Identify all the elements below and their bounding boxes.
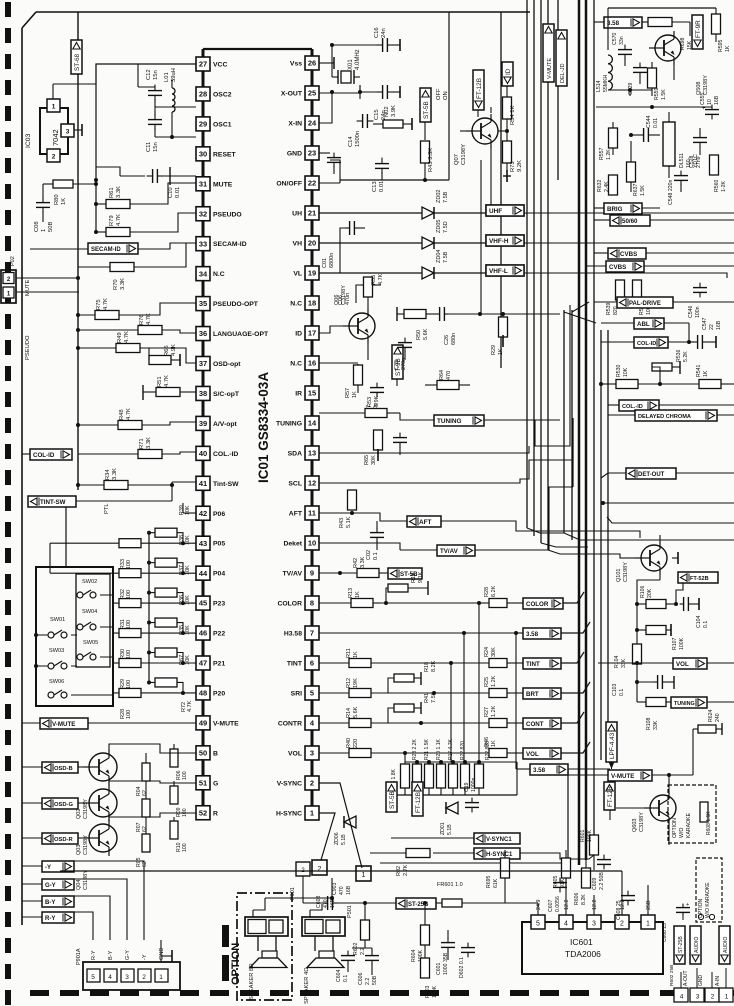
capacitor C609 2.2 50B [592, 855, 611, 890]
resistor R64 470 [425, 370, 470, 390]
inductor L01 39uH [164, 68, 177, 112]
resistor R18 8.2K [388, 660, 437, 693]
pin 40 COL.-ID [196, 446, 238, 460]
pin 44 P04 [196, 566, 225, 580]
tag DELAYED CHROMA [608, 410, 734, 421]
tag FT-9R vertical [692, 15, 703, 49]
resistor R604 100K [411, 901, 430, 962]
svg-text:SW03: SW03 [49, 648, 64, 654]
svg-text:28: 28 [199, 90, 207, 99]
svg-text:Deket: Deket [283, 541, 302, 548]
capacitor C544 0.01 [631, 115, 660, 142]
resistor R43 3.3K [421, 141, 435, 182]
pin 19 VL [293, 266, 319, 280]
svg-text:C548 220n: C548 220n [668, 180, 674, 205]
svg-text:R559: R559 [654, 87, 660, 100]
transistor Q02 C3198Y [76, 749, 117, 819]
svg-text:R75: R75 [96, 299, 102, 310]
svg-text:Q03: Q03 [76, 845, 82, 855]
pin 49 V-MUTE [196, 716, 239, 730]
svg-text:V-SYNC: V-SYNC [277, 781, 302, 788]
svg-text:SW05: SW05 [83, 640, 98, 646]
svg-text:12: 12 [308, 479, 316, 488]
svg-text:R71: R71 [139, 438, 145, 449]
svg-text:C608 23: C608 23 [662, 923, 668, 942]
svg-text:22: 22 [709, 324, 715, 330]
svg-text:52: 52 [199, 808, 207, 817]
resistor R70 3.3K [78, 243, 186, 290]
svg-text:TDA2006: TDA2006 [565, 949, 601, 959]
pin 50 B [196, 746, 218, 760]
diode ZD02 7.5B [319, 190, 486, 219]
svg-text:DELAYED CHROMA: DELAYED CHROMA [638, 414, 691, 420]
svg-text:0.1: 0.1 [619, 689, 625, 696]
svg-text:MUTE: MUTE [25, 279, 31, 296]
svg-text:H-SYNC1: H-SYNC1 [486, 852, 513, 858]
svg-text:680n: 680n [451, 333, 457, 345]
svg-text:220: 220 [353, 739, 359, 748]
transistor Q101 C3198Y [616, 535, 678, 604]
resistor R602 2.2 [353, 901, 370, 955]
resistor R698 top [648, 18, 693, 51]
svg-text:10: 10 [707, 99, 713, 105]
svg-text:Q07: Q07 [454, 154, 460, 165]
capacitor C15 24n [358, 85, 400, 120]
svg-text:37: 37 [199, 359, 207, 368]
option bracket marks [222, 925, 229, 981]
svg-text:R79: R79 [109, 215, 115, 226]
svg-text:1: 1 [725, 994, 729, 1001]
tag FT-12B bottom vertical [604, 782, 628, 820]
svg-text:5: 5 [310, 689, 314, 698]
svg-text:R41: R41 [424, 693, 430, 703]
svg-text:100: 100 [126, 680, 132, 689]
svg-text:1: 1 [362, 872, 366, 879]
speaker option dashed box [237, 893, 292, 1000]
svg-text:ABL: ABL [637, 321, 650, 328]
wire Deket pin10 [319, 542, 350, 544]
tag ST-25B vertical bottom right [674, 926, 685, 964]
svg-text:SCL: SCL [288, 481, 302, 488]
option karaoke box 2 [696, 858, 722, 922]
wire right rail 3 [564, 533, 734, 547]
svg-text:R-Y: R-Y [91, 950, 97, 960]
resistor R624 240 [693, 709, 722, 775]
svg-text:TV/AV: TV/AV [282, 571, 302, 578]
svg-text:3.58: 3.58 [533, 767, 546, 774]
svg-text:C3198Y: C3198Y [83, 799, 89, 819]
svg-text:35: 35 [199, 299, 207, 308]
svg-text:C35: C35 [394, 360, 400, 370]
svg-text:TUNING: TUNING [276, 421, 302, 428]
svg-text:ZD06: ZD06 [334, 832, 340, 845]
wire pin22 onoff [319, 180, 340, 183]
svg-text:COLOR: COLOR [526, 601, 549, 608]
svg-text:0.0056: 0.0056 [555, 896, 561, 912]
transistor Q07 C3198Y [454, 12, 498, 213]
svg-text:COL-ID: COL-ID [33, 452, 55, 459]
delay line DL511 160-YD1C [663, 112, 699, 178]
svg-text:TUNING: TUNING [674, 701, 695, 707]
tag VHF-L [486, 265, 560, 276]
svg-text:8.2K: 8.2K [431, 660, 437, 672]
svg-text:R25: R25 [484, 677, 490, 687]
pin 16 N.C [290, 356, 319, 370]
diode ZD01 5.1B [440, 795, 458, 835]
svg-text:R21 1.5K: R21 1.5K [424, 738, 430, 760]
svg-text:3: 3 [696, 994, 700, 1001]
svg-text:16B: 16B [346, 885, 352, 895]
resistor R32 100 [50, 567, 196, 599]
pin 23 GND [287, 146, 319, 160]
wires osc [155, 99, 196, 139]
svg-text:0.01: 0.01 [379, 181, 385, 192]
label OPTION vertical [230, 943, 242, 985]
svg-text:49: 49 [199, 719, 207, 728]
svg-text:ZD05: ZD05 [436, 220, 442, 233]
svg-text:OSD-B: OSD-B [54, 766, 73, 772]
svg-text:4.7K: 4.7K [116, 214, 122, 226]
svg-text:SW06: SW06 [49, 679, 64, 685]
svg-text:A/V-opt: A/V-opt [213, 421, 238, 428]
tag BRIG [594, 192, 660, 214]
capacitor C546 100n [688, 283, 707, 318]
transistor Q508 C3198Y [649, 22, 709, 95]
svg-text:N02: N02 [384, 106, 390, 117]
svg-text:Q02: Q02 [76, 809, 82, 819]
resistor FR601 [436, 899, 520, 907]
svg-text:P601: P601 [290, 887, 296, 900]
connector square 1 [356, 866, 371, 881]
wire right rail 2 [607, 517, 734, 523]
wire vsync cross [319, 783, 362, 868]
svg-text:N.C: N.C [290, 361, 302, 368]
wires Y tags to connector [74, 861, 300, 940]
svg-text:48: 48 [199, 689, 207, 698]
svg-text:1K: 1K [725, 45, 731, 52]
svg-text:3.58: 3.58 [526, 631, 539, 638]
resistor R35 10K [147, 625, 191, 665]
svg-text:ZD04: ZD04 [436, 250, 442, 263]
resistor R51 4.7K [143, 375, 196, 400]
svg-text:20: 20 [308, 239, 316, 248]
svg-text:2: 2 [52, 154, 56, 161]
svg-text:1K: 1K [61, 198, 67, 205]
svg-text:ZD02: ZD02 [436, 190, 442, 203]
svg-text:SRI: SRI [291, 691, 302, 698]
svg-text:P22: P22 [213, 631, 225, 638]
resistor R107 100K [635, 604, 685, 650]
pin 20 VH [293, 236, 319, 250]
pin 12 SCL [288, 476, 319, 490]
tag COL-ID right b [608, 400, 734, 411]
diode ZD06 5.1B [334, 816, 356, 845]
IC01 body left pin rail [202, 49, 205, 813]
svg-text:38: 38 [199, 389, 207, 398]
svg-text:C606: C606 [358, 972, 364, 985]
svg-text:SECAM-ID: SECAM-ID [91, 247, 121, 253]
svg-text:9.2K: 9.2K [517, 160, 523, 172]
svg-text:100K: 100K [679, 637, 685, 650]
svg-text:GND: GND [159, 948, 165, 960]
svg-text:1500n: 1500n [355, 131, 361, 147]
svg-text:0.1: 0.1 [373, 552, 379, 560]
wire vhfh to bus [524, 242, 734, 244]
svg-text:R541: R541 [696, 364, 702, 377]
svg-text:7.5B: 7.5B [443, 251, 449, 263]
svg-text:3: 3 [592, 921, 596, 928]
wire bottom rail 2 [60, 870, 622, 872]
svg-text:UHF: UHF [489, 208, 502, 215]
resistor R106 20K [635, 585, 678, 608]
svg-text:DL511: DL511 [679, 153, 685, 168]
svg-text:R602: R602 [353, 942, 359, 955]
svg-text:3.3K: 3.3K [360, 556, 366, 568]
svg-text:DET-OUT: DET-OUT [638, 472, 665, 478]
IC01 GS8334-03A label [256, 372, 271, 483]
resistor N02 3.9K [332, 105, 412, 130]
svg-text:DEL-JD: DEL-JD [560, 63, 566, 83]
svg-text:R34: R34 [105, 469, 111, 480]
svg-text:Q06: Q06 [334, 295, 340, 305]
svg-text:44: 44 [199, 569, 208, 578]
capacitor C547 22 16B [689, 317, 722, 349]
svg-text:X01: X01 [348, 59, 354, 70]
svg-text:0.01: 0.01 [175, 187, 181, 198]
IC01 body right pin rail [311, 49, 314, 813]
tag AFT [319, 511, 640, 538]
svg-text:B: B [213, 750, 218, 757]
svg-text:R608 1.5K: R608 1.5K [706, 811, 712, 835]
svg-text:ST-5B: ST-5B [389, 791, 396, 809]
svg-text:10K: 10K [185, 655, 191, 665]
option karaoke box 1 [668, 785, 716, 843]
wire SDA pin13 [319, 446, 529, 453]
svg-text:23: 23 [308, 149, 316, 158]
wire SCL pin12 [319, 418, 573, 483]
svg-text:R43: R43 [339, 518, 345, 528]
svg-text:B-Y: B-Y [108, 950, 114, 960]
svg-text:16B: 16B [714, 95, 720, 105]
svg-text:1.2K: 1.2K [606, 149, 612, 160]
svg-text:SDA: SDA [288, 451, 302, 458]
resistor R79 4.7K [94, 210, 196, 237]
svg-text:OSC1: OSC1 [213, 121, 232, 128]
resistor R61 3.3K [94, 183, 196, 209]
svg-text:1: 1 [41, 229, 47, 232]
svg-text:10: 10 [308, 539, 316, 548]
svg-text:4: 4 [680, 994, 684, 1001]
svg-text:C12: C12 [146, 69, 152, 80]
resistor R72 4.7K [181, 700, 193, 712]
tag TINT-SW [22, 485, 172, 507]
svg-text:ZD01: ZD01 [440, 822, 446, 835]
svg-text:V-MUTE: V-MUTE [213, 720, 239, 727]
capacitor C570 33n [612, 32, 632, 66]
svg-text:R606: R606 [574, 892, 580, 905]
speaker 4 ohm [302, 904, 345, 1004]
wire ladder top horizontals [405, 760, 517, 764]
frame top line [36, 11, 530, 13]
svg-text:1K: 1K [498, 348, 504, 355]
svg-text:24: 24 [308, 119, 317, 128]
svg-text:15: 15 [308, 389, 316, 398]
svg-text:R53: R53 [367, 397, 373, 407]
tag V-SYNC1 [391, 833, 560, 844]
svg-text:R11: R11 [346, 648, 352, 658]
svg-text:A-IN: A-IN [715, 976, 721, 986]
svg-text:5: 5 [536, 921, 540, 928]
svg-text:SW01: SW01 [50, 617, 65, 623]
svg-text:R64: R64 [439, 370, 445, 380]
svg-text:32: 32 [199, 209, 207, 218]
IC601 TDA2006 box [522, 900, 663, 975]
pin 11 AFT [289, 506, 319, 520]
svg-text:H3.58: H3.58 [284, 631, 302, 638]
svg-text:R73: R73 [510, 161, 516, 172]
tag -Y [22, 861, 74, 872]
svg-text:5.1B: 5.1B [447, 824, 453, 835]
svg-text:2: 2 [310, 779, 314, 788]
svg-text:10K: 10K [185, 535, 191, 545]
svg-text:SW02: SW02 [82, 579, 97, 585]
svg-text:OSD-R: OSD-R [54, 837, 73, 843]
svg-text:W/O KARAOKE: W/O KARAOKE [705, 882, 711, 918]
svg-text:V-MUTE: V-MUTE [547, 58, 553, 79]
resistor R560 1-2K [710, 155, 728, 192]
pin 51 G [196, 776, 218, 790]
svg-text:R20 1.1K: R20 1.1K [436, 738, 442, 760]
svg-text:46: 46 [199, 629, 207, 638]
svg-text:VOL: VOL [676, 661, 689, 668]
resistor R595 1K [712, 8, 732, 52]
tag UHF [486, 205, 524, 216]
svg-text:1K: 1K [353, 651, 359, 658]
svg-text:R23 2.2K: R23 2.2K [412, 738, 418, 760]
tag ST-25B [368, 898, 436, 909]
resistor R42 3.3K [319, 556, 388, 577]
svg-text:15n: 15n [153, 142, 159, 152]
svg-text:G-Y: G-Y [45, 883, 56, 889]
resistor R605 91K [553, 850, 571, 890]
svg-text:ST-5B: ST-5B [423, 101, 430, 119]
tag VHF-L [486, 265, 524, 276]
resistor R65 30K [364, 413, 383, 465]
svg-text:C607: C607 [548, 899, 554, 912]
svg-text:C19: C19 [464, 782, 470, 792]
capacitor C103 0.1 [612, 675, 674, 696]
svg-text:R80: R80 [54, 194, 60, 205]
resistor R28 100 [112, 688, 196, 719]
resistor R540 100 [633, 280, 653, 315]
pin 43 P05 [196, 536, 225, 550]
svg-text:10K: 10K [623, 367, 629, 377]
osd resistor cluster [136, 749, 188, 867]
svg-text:1: 1 [159, 974, 163, 981]
svg-text:GND: GND [698, 975, 704, 987]
pin 46 P22 [196, 626, 225, 640]
capacitor C603 470 16B [303, 876, 368, 910]
svg-text:39uH: 39uH [171, 68, 177, 82]
svg-text:2.2 50B: 2.2 50B [599, 872, 605, 890]
svg-text:SW04: SW04 [82, 609, 97, 615]
svg-text:R104: R104 [614, 655, 620, 668]
pin 7 H3.58 [284, 626, 319, 640]
frame left line [22, 12, 36, 925]
tag ST-5B vertical bottom [386, 782, 397, 812]
svg-text:R55: R55 [371, 275, 377, 285]
tag FT-52B [676, 572, 718, 604]
tag LPF-4.43 vertical [606, 722, 617, 769]
svg-text:4.0MHz: 4.0MHz [355, 49, 361, 70]
svg-text:31: 31 [199, 179, 207, 188]
svg-text:CVBS: CVBS [620, 251, 637, 258]
svg-text:R637: R637 [633, 183, 639, 196]
svg-text:R19: R19 [411, 573, 417, 583]
svg-text:C3198Y: C3198Y [639, 812, 645, 832]
svg-text:3: 3 [310, 749, 314, 758]
capacitor C528 27n9 [689, 128, 707, 168]
svg-text:COL.-ID: COL.-ID [213, 451, 238, 458]
svg-text:R27: R27 [484, 707, 490, 717]
tag V-MUTE bottom [560, 770, 693, 781]
capacitor C604 0.1 [336, 951, 355, 982]
svg-text:7.5B: 7.5B [443, 191, 449, 203]
svg-text:C10: C10 [168, 187, 174, 198]
svg-text:C3198Y: C3198Y [623, 562, 629, 582]
svg-text:34: 34 [199, 269, 208, 278]
svg-text:R22 820: R22 820 [485, 741, 491, 760]
wire bus to pin rows horizontal top [529, 11, 531, 13]
svg-text:10K: 10K [185, 505, 191, 515]
speaker feed wires [265, 878, 334, 904]
wire h-rail y363 [560, 362, 594, 364]
svg-text:4: 4 [564, 921, 568, 928]
svg-text:D602 0.1: D602 0.1 [459, 957, 465, 978]
svg-text:7.5K: 7.5K [431, 691, 437, 703]
svg-text:19: 19 [308, 269, 316, 278]
svg-text:100: 100 [126, 620, 132, 629]
pin 37 OSD-opt [196, 357, 241, 371]
svg-text:1K: 1K [703, 370, 709, 377]
resistor R66 4.9K [149, 344, 196, 366]
pin 3 VOL [288, 746, 319, 760]
svg-text:3.3K: 3.3K [116, 186, 122, 198]
svg-text:ID: ID [505, 68, 512, 75]
svg-text:7.5D: 7.5D [443, 221, 449, 233]
svg-text:OSD-opt: OSD-opt [213, 361, 241, 368]
svg-text:4.7K: 4.7K [126, 408, 132, 420]
svg-text:100: 100 [126, 650, 132, 659]
svg-text:Vss: Vss [290, 61, 302, 68]
pin 14 TUNING [276, 416, 319, 430]
resistor R39 10K [147, 505, 191, 545]
tag DET-OUT [601, 468, 734, 479]
svg-text:11: 11 [308, 509, 316, 518]
wire vertical x149 resistor grid [148, 533, 150, 683]
svg-text:1.5K: 1.5K [640, 185, 646, 196]
svg-text:P06: P06 [213, 511, 225, 518]
connector P601 [290, 862, 310, 900]
svg-text:R43 3.3K: R43 3.3K [428, 148, 434, 172]
svg-text:R107: R107 [672, 637, 678, 650]
svg-text:TINT: TINT [287, 661, 303, 668]
svg-text:C547: C547 [702, 317, 708, 330]
tag PAL-DRIVE [594, 297, 734, 308]
switch block SW01-SW06 [34, 567, 113, 706]
svg-text:R602 25B: R602 25B [669, 965, 675, 986]
tag OSD-B [22, 762, 83, 773]
